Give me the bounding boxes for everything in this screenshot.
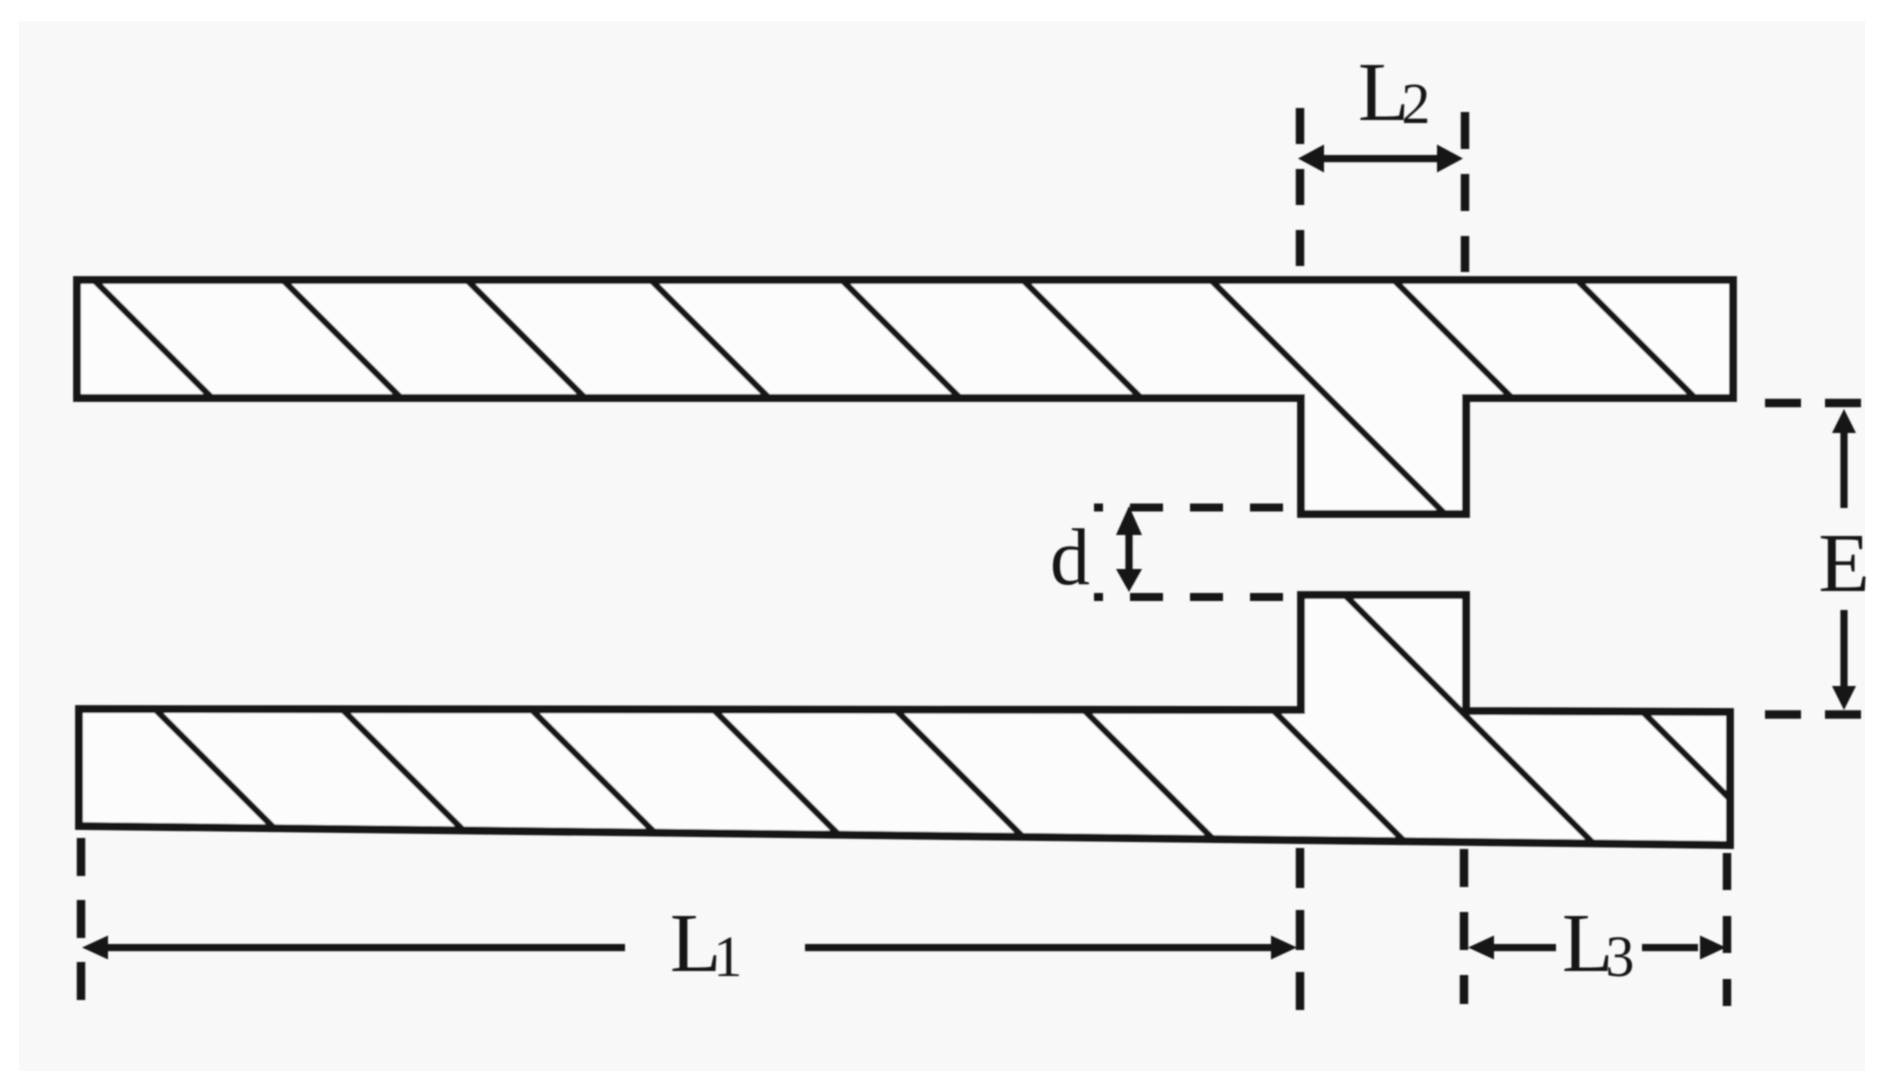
upper plate hatching [80, 266, 1823, 526]
L3 extension line right [1723, 853, 1732, 1006]
L1 extension line mid [1296, 848, 1305, 1010]
L2 extension line left [1296, 108, 1305, 272]
E extension line lower [1765, 710, 1863, 719]
d extension line upper [1094, 504, 1284, 512]
d extension line lower [1094, 593, 1284, 601]
E arrow upper [1832, 409, 1856, 508]
E extension line upper [1765, 399, 1863, 408]
lower plate hatching [20, 574, 1801, 870]
L3 arrow [1468, 936, 1726, 960]
L1 extension line left [77, 838, 86, 1006]
L3 extension line left [1460, 849, 1469, 1004]
E arrow lower [1832, 610, 1856, 710]
upper plate outline [77, 280, 1733, 514]
lower plate outline [79, 595, 1730, 845]
svg-text:E: E [1818, 517, 1869, 610]
L1 arrow [82, 936, 1297, 960]
L2 arrow [1298, 145, 1463, 173]
L2 extension line right [1461, 112, 1470, 272]
d arrow [1116, 506, 1142, 592]
svg-text:d: d [1050, 514, 1090, 602]
